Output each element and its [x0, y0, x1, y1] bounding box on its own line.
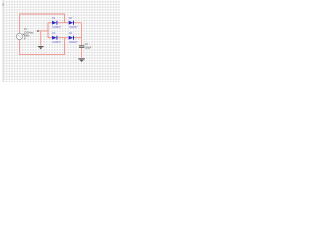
left window edge line: [2, 0, 5, 82]
capacitor C1: [79, 45, 84, 47]
diode D4: [69, 36, 74, 40]
ground (below C1): [78, 58, 85, 62]
wire: bridge left vertical (node L): [47, 23, 49, 38]
ground (left, net 0): [38, 46, 44, 49]
diode D3: [52, 36, 57, 40]
diode D2: [69, 21, 74, 25]
grid dots: [4, 0, 120, 82]
AC source V1: [16, 33, 24, 39]
svg-text:0°: 0°: [24, 37, 26, 40]
diode D2 leads: [65, 22, 69, 24]
svg-text:100µF: 100µF: [85, 47, 92, 49]
svg-text:1N4007: 1N4007: [52, 41, 61, 44]
diode D4 leads: [65, 37, 69, 39]
wire: C1 bottom to ground: [81, 48, 83, 58]
wire: top net from V1 plus to bridge mid-top: [20, 14, 65, 33]
diode D1 leads: [48, 22, 52, 24]
svg-text:1N4007: 1N4007: [69, 41, 78, 44]
wire: ground tap from node L: [39, 30, 48, 32]
svg-text:1N4007: 1N4007: [52, 26, 61, 29]
wire: ground tap vertical drop: [40, 31, 42, 46]
svg-text:1N4007: 1N4007: [69, 26, 78, 29]
diode D3 leads: [48, 37, 52, 39]
wire: bottom net from V1 minus to bridge mid-bottom: [20, 38, 65, 55]
canvas background: [0, 0, 120, 82]
left edge marker blip: [2, 3, 3, 5]
junction dot net 0: [37, 30, 39, 32]
wire: bridge right vertical (node R) down to C1: [81, 23, 83, 46]
diode D1: [52, 21, 57, 25]
